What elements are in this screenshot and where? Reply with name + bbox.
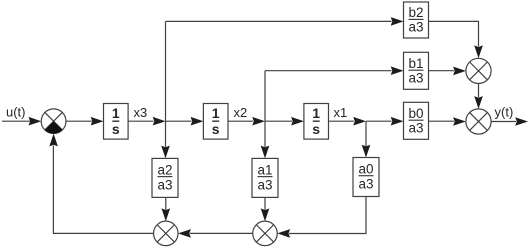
svg-text:1: 1 (112, 105, 120, 121)
svg-text:1: 1 (312, 105, 320, 121)
svg-text:a3: a3 (408, 70, 423, 85)
svg-text:b1: b1 (408, 56, 423, 71)
label y(t) (495, 105, 514, 120)
wire input u(t) to summing junction S1 (2, 117, 41, 126)
svg-text:x2: x2 (234, 105, 248, 120)
svg-text:y(t): y(t) (495, 105, 514, 120)
svg-text:a3: a3 (408, 20, 423, 35)
wire b0/a3 to bottom-right adder (429, 117, 466, 126)
svg-text:a1: a1 (257, 162, 272, 177)
wire integrator3 to node 3 (329, 117, 367, 126)
svg-text:1: 1 (212, 105, 220, 121)
svg-text:a3: a3 (358, 177, 373, 192)
gain block a2/a3 (152, 158, 178, 197)
integrator block 1/s (first) (104, 104, 129, 140)
wire S1 to integrator 1 (66, 117, 104, 126)
node 2 vertical branch (up to b1/a3, down to a1/a3) (261, 71, 270, 159)
node u(t) input label (6, 105, 26, 120)
wire output y(t) (491, 117, 528, 126)
summing junction A2 (output adder) (466, 109, 491, 134)
summing junction A3 (bottom left) (154, 221, 179, 246)
gain block b0/a3 (404, 102, 429, 139)
wire b1/a3 to top-right adder (429, 67, 466, 76)
label x1 (334, 105, 348, 120)
summing junction A4 (bottom middle) (253, 221, 278, 246)
wire node3 to b0/a3 (366, 117, 404, 126)
wire integrator1 to node 1 (128, 117, 165, 126)
wire node2 feed to b1/a3 (265, 66, 404, 75)
svg-text:x3: x3 (134, 105, 148, 120)
gain block b2/a3 (404, 2, 429, 38)
gain block a0/a3 (353, 158, 379, 197)
svg-text:a2: a2 (157, 162, 172, 177)
wire node2 to integrator 3 (265, 117, 304, 126)
wire integrator2 to node 2 (228, 117, 265, 126)
integrator block 1/s (third) (304, 104, 329, 140)
summing junction A1 (top right) (466, 58, 491, 83)
node 1 vertical branch (up to b2/a3, down to a2/a3) (161, 21, 170, 158)
wire feedback adder A3 left and up into S1 (49, 134, 153, 234)
svg-text:u(t): u(t) (6, 105, 26, 120)
gain block a1/a3 (252, 158, 278, 197)
wire node1 to integrator 2 (166, 117, 204, 126)
node 3 vertical branch (down to a0/a3) (362, 121, 371, 157)
svg-text:x1: x1 (334, 105, 348, 120)
svg-text:s: s (312, 121, 320, 137)
svg-text:b2: b2 (408, 5, 423, 20)
wire adder A1 to adder A2 (474, 84, 483, 109)
svg-text:s: s (112, 121, 120, 137)
summing junction S1 (with filled bottom quadrant) (41, 109, 66, 134)
svg-text:s: s (212, 121, 220, 137)
wire a0/a3 down and left into adder A4 (277, 197, 366, 238)
wire top feed to b2/a3 (166, 17, 404, 26)
wire b2/a3 to top-right adder (right then down) (429, 21, 483, 58)
wire a1/a3 down to bottom-mid adder (261, 197, 270, 221)
svg-text:b0: b0 (408, 106, 423, 121)
wire adder A4 to adder A3 (178, 229, 253, 238)
svg-text:a3: a3 (257, 178, 272, 193)
svg-text:a3: a3 (157, 178, 172, 193)
svg-text:a0: a0 (358, 161, 373, 176)
wire a2/a3 down to bottom-left adder (162, 197, 171, 221)
label x2 (234, 105, 248, 120)
label x3 (134, 105, 148, 120)
integrator block 1/s (second) (203, 104, 228, 140)
gain block b1/a3 (404, 52, 429, 89)
svg-text:a3: a3 (408, 120, 423, 135)
